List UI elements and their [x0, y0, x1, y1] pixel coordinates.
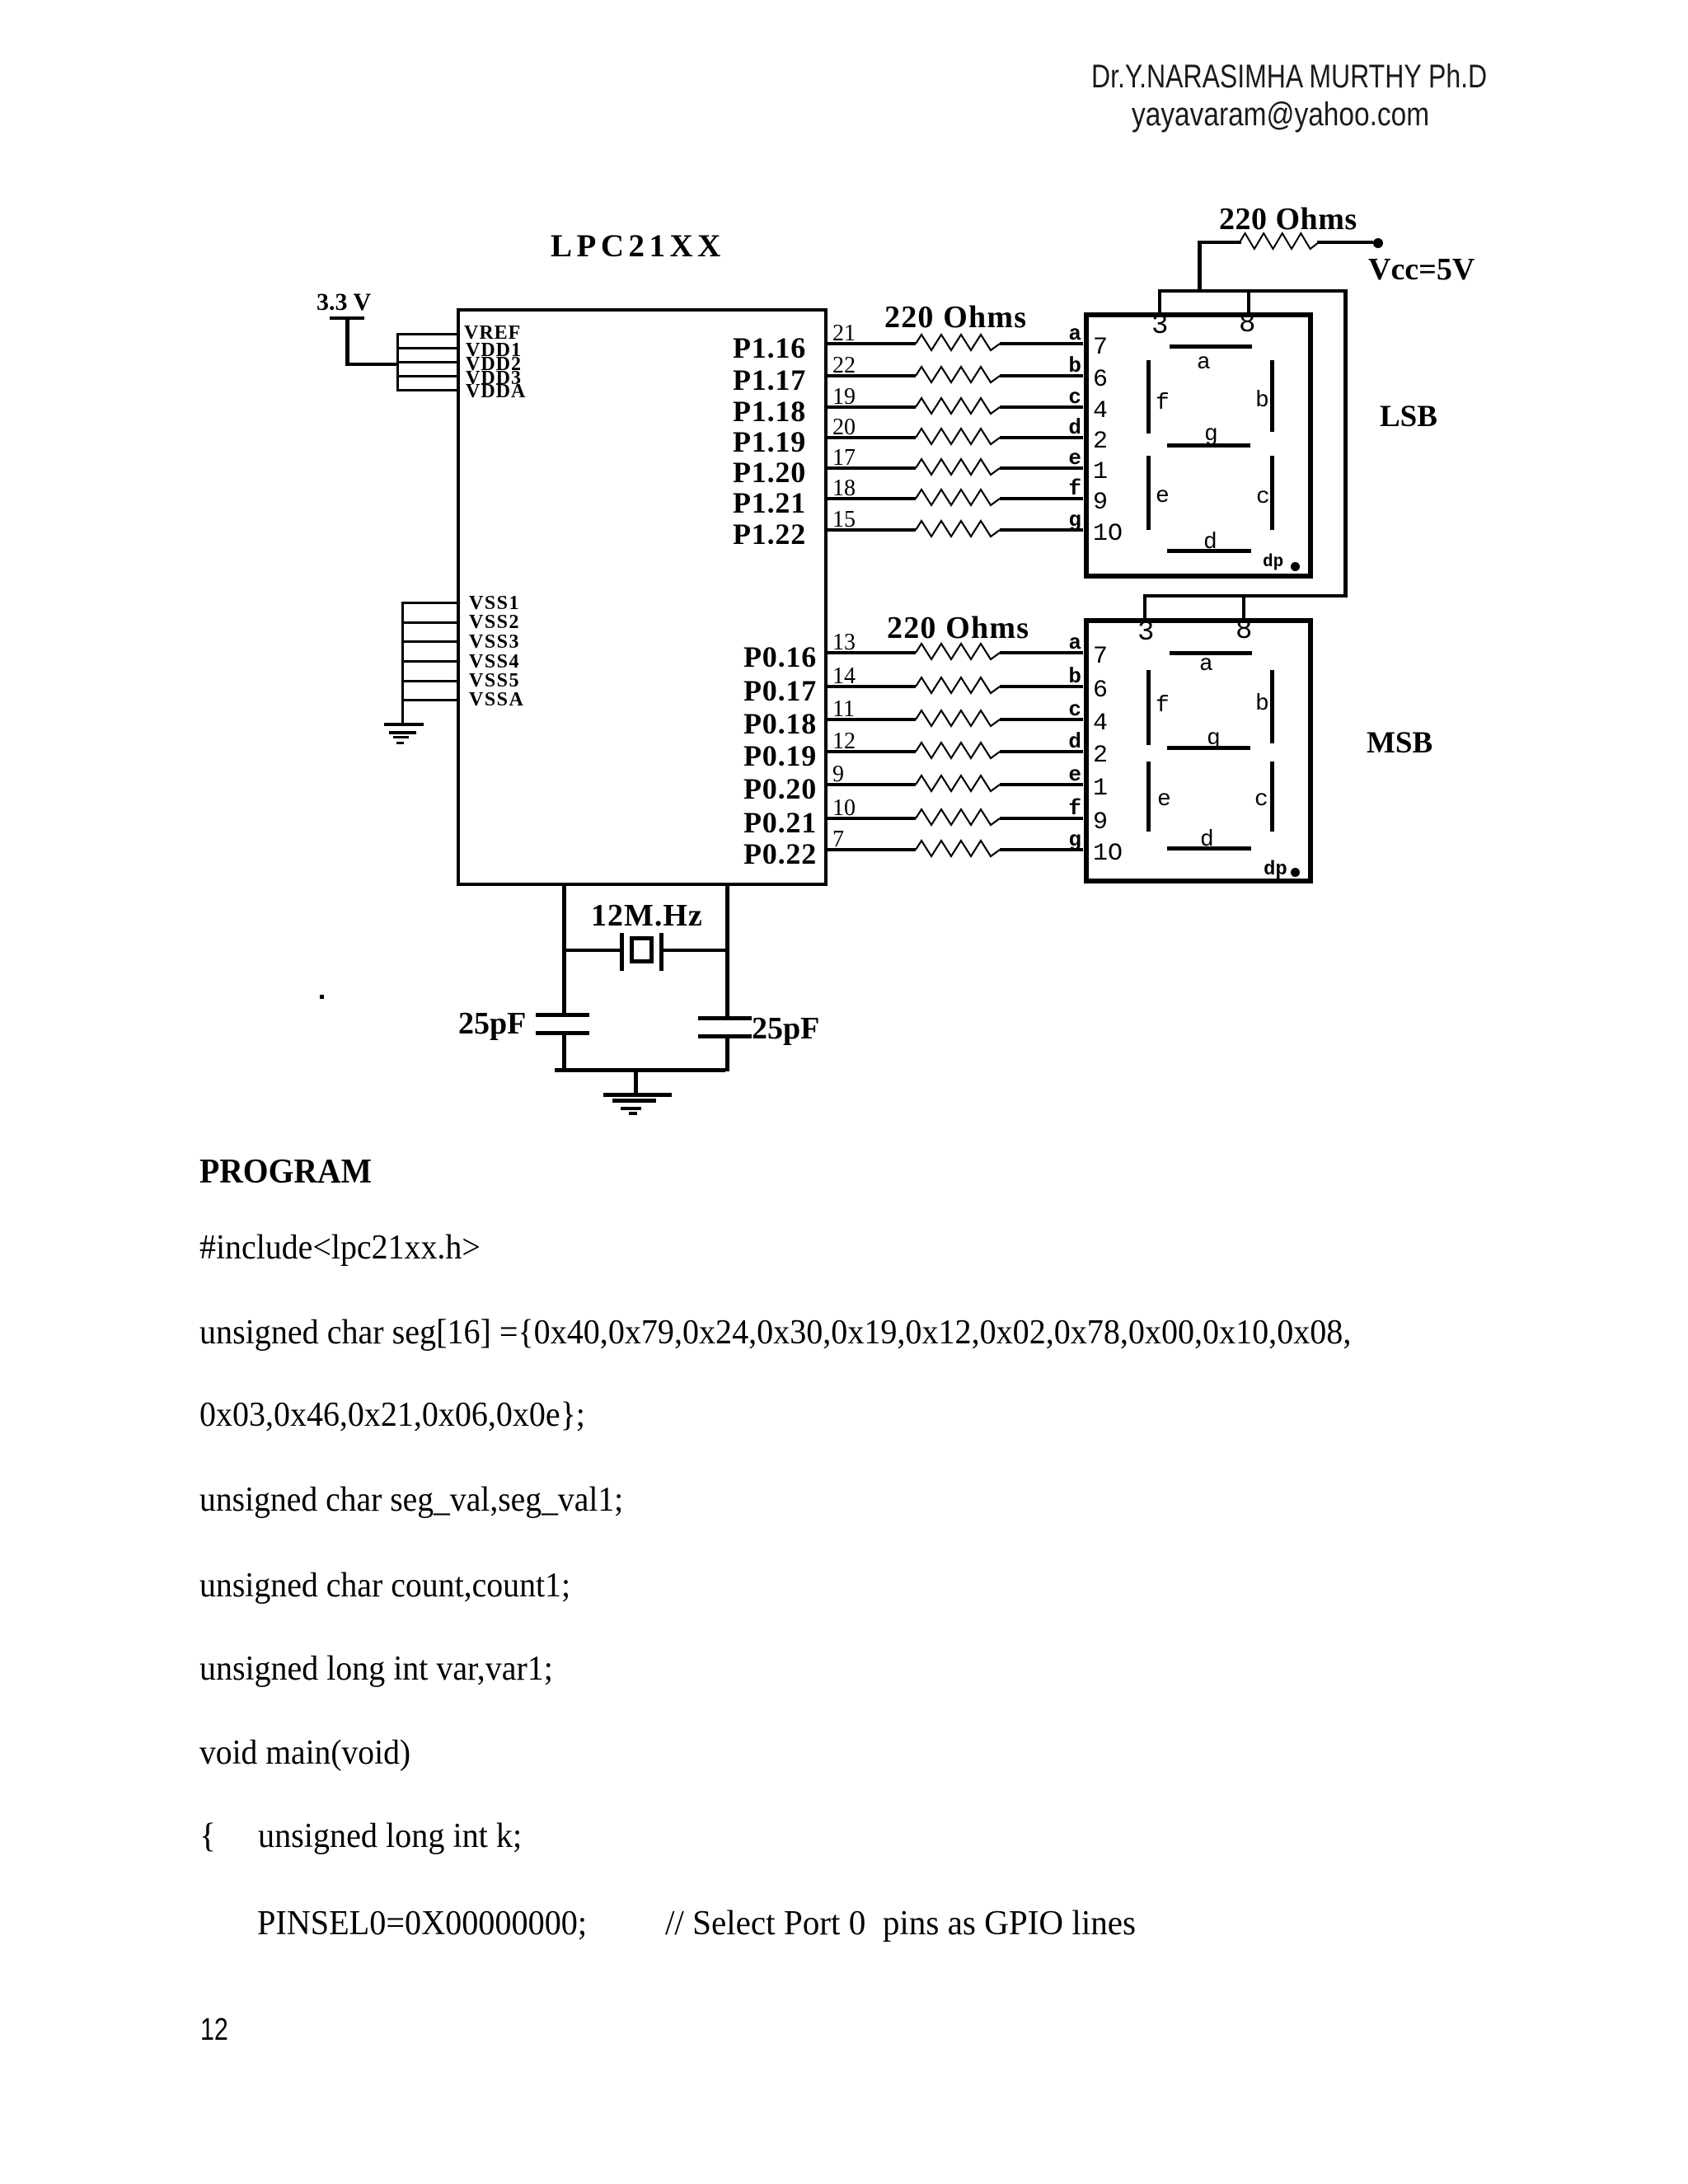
wire P1 pin 21 [828, 342, 916, 345]
label VSSA [469, 689, 524, 711]
pin label P1.19 [641, 424, 806, 459]
MSB segment label f [1156, 693, 1170, 719]
MSB rail stub pin8 [1242, 594, 1245, 618]
resistor 220 Ohm P1 row f [916, 487, 1000, 510]
Vcc label [1368, 251, 1475, 288]
pin VREF [396, 333, 457, 335]
body text [199, 1152, 372, 1192]
wire resistor to display P1 row a [1000, 342, 1083, 345]
MSB segment e bar [1146, 762, 1151, 832]
resistor 220 Ohm P1 row g [916, 518, 1000, 541]
resistor 220 Ohm P0 row e [916, 773, 1000, 796]
wire resistor to display P1 row d [1000, 436, 1083, 439]
wire P1 pin 20 [828, 436, 916, 439]
bottom rail [555, 1068, 725, 1072]
top resistor left wire [1198, 241, 1241, 244]
MSB vcc rail [1143, 594, 1348, 598]
wire C1 to rail [562, 1035, 566, 1071]
LSB segment e bar [1146, 456, 1151, 530]
resistor 220 Ohm P0 row c [916, 708, 1000, 731]
label VSS2 [469, 612, 520, 634]
pin VSS1 [401, 602, 457, 604]
wire C2 to rail [725, 1038, 729, 1071]
pin VSS3 [401, 640, 457, 643]
resistor 220 Ohm P1 row b [916, 364, 1000, 387]
display pin number 10 [1093, 840, 1123, 868]
top resistor right wire [1317, 241, 1373, 244]
pin label P0.20 [652, 771, 817, 806]
LSB segment label g [1204, 422, 1218, 448]
pin number 21 [832, 321, 856, 347]
pin label P1.18 [641, 394, 806, 429]
pin number 11 [832, 696, 855, 723]
MSB dp dot [1291, 868, 1300, 877]
pin label P1.22 [641, 517, 806, 551]
LSB rail stub pin3 [1158, 289, 1161, 312]
wire P0 pin 12 [828, 750, 916, 753]
resistor 220 Ohm P0 row a [916, 641, 1000, 664]
wire resistor to display P1 row f [1000, 497, 1083, 500]
capacitor C2 top plate [698, 1016, 752, 1020]
wire MCU to crystal right [725, 886, 729, 1018]
wire P0 pin 11 [828, 718, 916, 721]
pin VSS2 [401, 621, 457, 624]
pin number 19 [832, 384, 856, 410]
3.3V supply vertical wire [345, 316, 349, 366]
segment letter a at wire end [1047, 630, 1081, 655]
wire P0 pin 7 [828, 848, 916, 851]
resistor 220 Ohm P1 row d [916, 426, 1000, 449]
pin VSS4 [401, 660, 457, 663]
3.3 V label [316, 288, 371, 316]
wire resistor to display P0 row b [1000, 685, 1083, 688]
pin number 14 [832, 663, 856, 690]
chip label LPC21XX [551, 227, 725, 265]
capacitor C1 25pF label [458, 1005, 526, 1042]
ground symbol [603, 1093, 672, 1097]
LSB segment g bar [1167, 443, 1250, 448]
label VSS4 [469, 651, 520, 673]
pin label P0.19 [652, 738, 817, 773]
pin number 12 [832, 729, 856, 755]
pin number 10 [832, 795, 856, 822]
capacitor C1 bottom plate [536, 1031, 589, 1035]
220 Ohms label (P1 resistor bank) [884, 299, 1027, 335]
label VSS1 [469, 593, 520, 615]
display pin number 7 [1093, 643, 1108, 671]
display pin number 6 [1093, 677, 1108, 705]
wire resistor to display P0 row a [1000, 651, 1083, 654]
display pin number 7 [1093, 334, 1108, 362]
pin VDD2 [396, 361, 457, 363]
LSB segment label c [1256, 485, 1270, 510]
VDD pin bracket vertical [396, 333, 399, 391]
pin label P1.21 [641, 485, 806, 520]
LSB rail stub pin8 [1247, 289, 1250, 312]
Vcc dot [1373, 238, 1383, 248]
pin VDD3 [396, 375, 457, 377]
crystal electrode left [620, 933, 624, 971]
wire resistor to display P1 row g [1000, 528, 1083, 532]
wire resistor to display P0 row d [1000, 750, 1083, 753]
MSB segment label b [1255, 691, 1269, 717]
pin label P0.21 [652, 805, 817, 840]
MSB segment label e [1157, 787, 1171, 813]
display pin number 9 [1093, 489, 1108, 517]
segment letter c at wire end [1047, 697, 1081, 722]
pin label P1.17 [641, 363, 806, 397]
pin label P1.20 [641, 455, 806, 490]
segment letter d at wire end [1047, 729, 1081, 754]
segment letter a at wire end [1047, 321, 1081, 346]
segment letter e at wire end [1047, 446, 1081, 471]
LSB segment b bar [1270, 360, 1274, 432]
label VDD2 [466, 354, 522, 376]
ground for VSS [384, 723, 424, 726]
pin label P0.16 [652, 640, 817, 674]
wire P1 pin 22 [828, 374, 916, 377]
segment letter b at wire end [1047, 664, 1081, 689]
DIS1 pin 3 label [1151, 311, 1168, 342]
220 Ohms label (top pull-up) [1219, 201, 1357, 237]
LSB vcc rail [1158, 289, 1348, 293]
crystal electrode right [659, 933, 663, 971]
wire P1 pin 15 [828, 528, 916, 532]
LSB dp label [1263, 553, 1283, 572]
capacitor C2 bottom plate [698, 1034, 752, 1038]
wire P0 pin 9 [828, 783, 916, 786]
pin number 13 [832, 630, 856, 656]
wire resistor to display P0 row g [1000, 848, 1083, 851]
pin number 9 [832, 762, 844, 788]
wire P1 pin 18 [828, 497, 916, 500]
LSB segment label f [1156, 391, 1170, 416]
pin number 18 [832, 476, 856, 502]
wire resistor to display P1 row b [1000, 374, 1083, 377]
LSB segment c bar [1270, 456, 1274, 530]
LSB segment label a [1197, 350, 1211, 376]
label VSS5 [469, 670, 520, 692]
crystal body X1 [630, 936, 654, 963]
MSB rail stub pin3 [1143, 594, 1146, 618]
MCU U1 LPC21XX body [457, 308, 828, 886]
segment letter e at wire end [1047, 762, 1081, 787]
display pin number 1 [1093, 775, 1108, 803]
label VDDA [466, 381, 526, 403]
DIS1 pin 8 label [1239, 309, 1255, 340]
pin number 20 [832, 415, 856, 441]
LSB segment d bar [1167, 549, 1251, 553]
LSB segment label b [1255, 388, 1269, 414]
pin VSS5 [401, 680, 457, 682]
display pin number 4 [1093, 397, 1108, 425]
MSB segment b bar [1270, 670, 1274, 743]
wire P1 pin 19 [828, 405, 916, 409]
resistor 220 Ohm P0 row d [916, 740, 1000, 763]
DIS2 pin 3 label [1137, 617, 1154, 649]
wire P1 pin 17 [828, 466, 916, 470]
segment letter c at wire end [1047, 385, 1081, 410]
display pin number 2 [1093, 428, 1108, 456]
MSB segment g bar [1167, 746, 1250, 750]
display pin number 4 [1093, 710, 1108, 738]
wire P0 pin 14 [828, 685, 916, 688]
wire resistor to display P1 row c [1000, 405, 1083, 409]
display pin number 2 [1093, 742, 1108, 770]
crystal wire left [564, 949, 621, 952]
VSS pin bracket vertical [401, 602, 404, 723]
display pin number 9 [1093, 808, 1108, 837]
MSB segment c bar [1270, 762, 1274, 832]
label 12M.Hz [591, 898, 703, 934]
MSB segment a bar [1170, 651, 1252, 655]
segment letter g at wire end [1047, 508, 1081, 532]
wire resistor to display P0 row f [1000, 817, 1083, 820]
MSB segment label a [1199, 652, 1213, 677]
resistor 220 Ohm P0 row f [916, 807, 1000, 830]
stray dot [320, 995, 324, 999]
wire P0 pin 10 [828, 817, 916, 820]
resistor 220 Ohm P0 row g [916, 838, 1000, 861]
resistor 220 Ohm P0 row b [916, 675, 1000, 698]
capacitor C2 25pF label [752, 1010, 819, 1047]
MSB segment f bar [1146, 670, 1151, 745]
label VSS3 [469, 631, 520, 654]
resistor 220 Ohm P1 row e [916, 457, 1000, 480]
LSB segment label e [1156, 484, 1170, 509]
wire resistor to display P1 row e [1000, 466, 1083, 470]
wire resistor to display P0 row c [1000, 718, 1083, 721]
pin number 22 [832, 353, 856, 379]
resistor 220 Ohm P1 row c [916, 396, 1000, 419]
display pin number 1 [1093, 458, 1108, 486]
segment letter f at wire end [1047, 476, 1081, 501]
MSB tag [1367, 725, 1432, 761]
220 Ohms label (P0 resistor bank) [887, 610, 1029, 646]
pin number 15 [832, 507, 856, 533]
wire resistor to display P0 row e [1000, 783, 1083, 786]
label VDD1 [466, 340, 522, 362]
LSB segment f bar [1146, 360, 1151, 434]
segment letter d at wire end [1047, 415, 1081, 440]
pin number 7 [832, 827, 844, 853]
wire 3.3V to VDD bracket [345, 363, 398, 366]
resistor 220 Ohm pull-up zigzag [1240, 231, 1319, 254]
segment letter f at wire end [1047, 796, 1081, 821]
header line 2 [1132, 96, 1429, 134]
3.3V supply bar [330, 316, 364, 320]
7-segment display DIS2 (MSB) body [1084, 618, 1313, 883]
right rail vertical [1343, 289, 1348, 598]
page number [200, 2013, 228, 2048]
LSB segment a bar [1170, 344, 1252, 349]
display pin number 10 [1093, 520, 1123, 548]
7-segment display DIS1 (LSB) body [1084, 312, 1313, 579]
pin label P1.16 [641, 330, 806, 365]
resistor 220 Ohm P1 row a [916, 332, 1000, 355]
LSB dp dot [1291, 562, 1300, 571]
wire P0 pin 13 [828, 651, 916, 654]
capacitor C1 top plate [536, 1013, 589, 1017]
pin VDDA [396, 389, 457, 391]
top resistor vertical to rail [1198, 241, 1202, 292]
DIS2 pin 8 label [1236, 616, 1252, 647]
MSB segment label c [1254, 787, 1268, 813]
LSB segment label d [1203, 530, 1217, 555]
pin label P0.22 [652, 837, 817, 871]
MSB segment label g [1207, 726, 1221, 752]
crystal wire right [663, 949, 728, 952]
pin VSSA [401, 699, 457, 701]
pin number 17 [832, 445, 856, 471]
ground stub [634, 1068, 638, 1093]
label VREF [464, 322, 521, 344]
LSB tag [1380, 399, 1437, 434]
pin label P0.18 [652, 706, 817, 741]
header line 1 [1091, 59, 1487, 96]
MSB segment label d [1200, 827, 1214, 853]
pin VDD1 [396, 347, 457, 349]
label VDD3 [466, 368, 522, 390]
segment letter b at wire end [1047, 354, 1081, 378]
MSB dp label [1264, 859, 1287, 881]
MSB segment d bar [1167, 846, 1251, 851]
segment letter g at wire end [1047, 827, 1081, 852]
pin label P0.17 [652, 673, 817, 708]
wire MCU to crystal left [562, 886, 566, 1016]
display pin number 6 [1093, 366, 1108, 394]
